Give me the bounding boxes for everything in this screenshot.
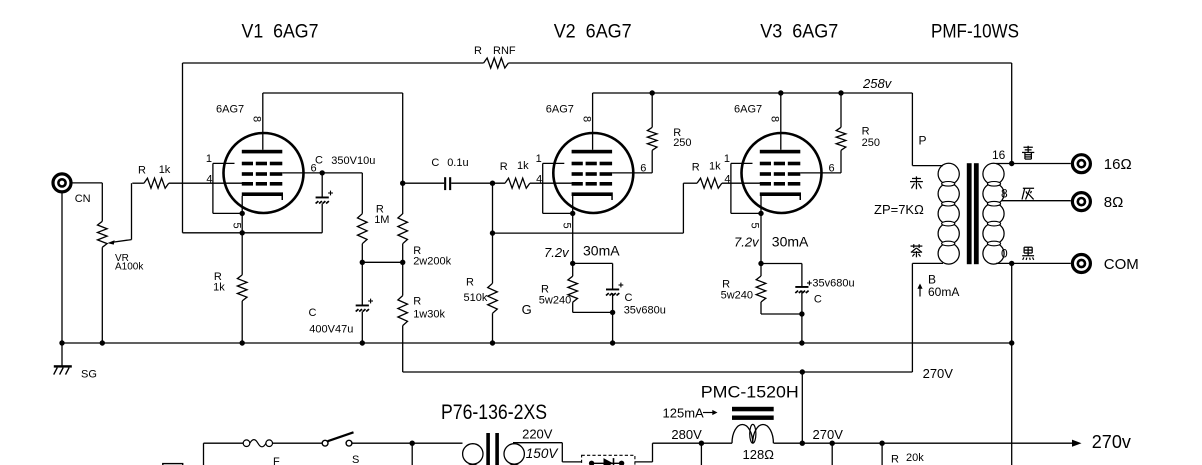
svg-text:5: 5 xyxy=(749,222,761,228)
svg-text:400V47u: 400V47u xyxy=(309,323,353,335)
svg-text:220V: 220V xyxy=(522,426,553,441)
svg-text:1M: 1M xyxy=(374,214,389,226)
svg-text:C: C xyxy=(431,157,439,169)
svg-text:R: R xyxy=(891,454,899,465)
svg-text:SG: SG xyxy=(81,368,97,380)
svg-text:5w240: 5w240 xyxy=(721,290,753,302)
svg-text:35v680u: 35v680u xyxy=(812,278,854,290)
svg-text:150V: 150V xyxy=(526,446,560,461)
svg-text:P76-136-2XS: P76-136-2XS xyxy=(441,401,547,424)
svg-text:8: 8 xyxy=(251,116,263,122)
svg-text:30mA: 30mA xyxy=(772,234,809,250)
svg-text:1: 1 xyxy=(724,153,730,165)
svg-text:250: 250 xyxy=(862,137,880,149)
svg-text:1w30k: 1w30k xyxy=(413,308,445,320)
svg-text:16Ω: 16Ω xyxy=(1104,156,1132,173)
svg-text:258v: 258v xyxy=(862,76,893,91)
svg-text:1k: 1k xyxy=(517,160,529,172)
svg-text:6AG7: 6AG7 xyxy=(734,104,762,116)
svg-text:350V10u: 350V10u xyxy=(331,155,375,167)
svg-text:60mA: 60mA xyxy=(928,285,959,299)
svg-text:7.2v: 7.2v xyxy=(544,245,570,260)
svg-text:P: P xyxy=(919,134,927,148)
svg-text:R: R xyxy=(474,45,482,57)
svg-text:8Ω: 8Ω xyxy=(1104,194,1124,211)
svg-text:270V: 270V xyxy=(813,427,844,442)
svg-text:5: 5 xyxy=(231,222,243,228)
svg-text:R: R xyxy=(466,276,474,288)
svg-text:1: 1 xyxy=(206,153,212,165)
svg-text:PMF-10WS: PMF-10WS xyxy=(931,22,1019,43)
svg-text:5w240: 5w240 xyxy=(539,295,571,307)
svg-text:30mA: 30mA xyxy=(583,243,620,259)
svg-text:270V: 270V xyxy=(923,366,954,381)
svg-text:8: 8 xyxy=(769,116,781,122)
svg-text:COM: COM xyxy=(1104,256,1139,273)
svg-text:1k: 1k xyxy=(159,164,171,176)
svg-text:F: F xyxy=(273,456,280,465)
svg-text:V3 6AG7: V3 6AG7 xyxy=(760,22,838,43)
svg-text:C: C xyxy=(309,307,317,319)
svg-text:R: R xyxy=(692,162,700,174)
svg-text:20k: 20k xyxy=(906,452,924,464)
svg-text:8: 8 xyxy=(1001,187,1008,201)
svg-text:6AG7: 6AG7 xyxy=(216,104,244,116)
svg-text:16: 16 xyxy=(992,148,1006,162)
svg-text:C: C xyxy=(814,294,822,306)
svg-text:V1 6AG7: V1 6AG7 xyxy=(242,22,319,43)
svg-text:510k: 510k xyxy=(464,292,488,304)
svg-text:1k: 1k xyxy=(709,161,721,173)
svg-text:R: R xyxy=(862,126,870,138)
svg-text:250: 250 xyxy=(673,137,691,149)
svg-text:G: G xyxy=(522,302,532,317)
svg-text:6AG7: 6AG7 xyxy=(546,104,574,116)
svg-text:7.2v: 7.2v xyxy=(734,234,760,249)
svg-text:125mA: 125mA xyxy=(663,406,705,421)
svg-text:C: C xyxy=(315,155,323,167)
svg-text:128Ω: 128Ω xyxy=(743,447,775,462)
svg-text:S: S xyxy=(352,454,359,465)
svg-text:1: 1 xyxy=(536,153,542,165)
svg-text:270v: 270v xyxy=(1092,432,1131,452)
svg-text:R: R xyxy=(138,165,146,177)
svg-text:PMC-1520H: PMC-1520H xyxy=(701,382,799,401)
svg-text:RNF: RNF xyxy=(493,45,516,57)
svg-text:0: 0 xyxy=(1001,247,1008,261)
svg-text:2w200k: 2w200k xyxy=(413,256,451,268)
svg-text:A100k: A100k xyxy=(115,261,144,272)
svg-text:5: 5 xyxy=(561,222,573,228)
svg-text:1k: 1k xyxy=(213,282,225,294)
svg-text:C: C xyxy=(625,292,633,304)
svg-text:8: 8 xyxy=(580,116,592,122)
svg-text:R: R xyxy=(413,296,421,308)
svg-text:V2 6AG7: V2 6AG7 xyxy=(554,22,632,43)
svg-text:R: R xyxy=(500,161,508,173)
svg-text:CN: CN xyxy=(75,193,91,205)
svg-text:280V: 280V xyxy=(671,427,702,442)
svg-text:0.1u: 0.1u xyxy=(447,157,468,169)
svg-text:35v680u: 35v680u xyxy=(624,305,666,317)
svg-text:ZP=7KΩ: ZP=7KΩ xyxy=(874,202,924,217)
